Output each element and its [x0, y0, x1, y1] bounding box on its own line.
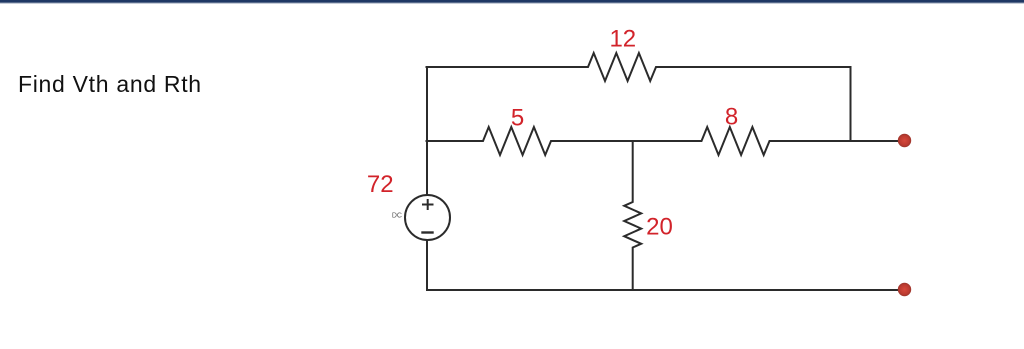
svg-text:72: 72	[367, 171, 394, 198]
svg-text:5: 5	[511, 104, 524, 131]
svg-text:DC: DC	[392, 213, 402, 220]
svg-text:8: 8	[725, 103, 738, 130]
svg-text:12: 12	[609, 25, 636, 52]
svg-text:20: 20	[646, 213, 673, 240]
